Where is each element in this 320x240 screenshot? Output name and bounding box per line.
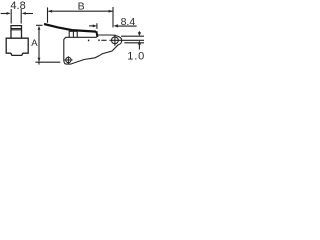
hinge lever: [44, 24, 96, 32]
switch body (side view) outline: [64, 37, 119, 64]
dimension 4.8 left extension line: [10, 9, 12, 24]
dimension A up arrow: [38, 26, 41, 30]
dimension 4.8 left tail: [1, 13, 7, 15]
hole cross horizontal: [64, 59, 72, 61]
dimension A top tick: [36, 24, 43, 26]
svg-text:1.0: 1.0: [127, 51, 144, 63]
datum line (mounting plane): [35, 61, 60, 63]
dimension 4.8 right extension line: [20, 9, 22, 24]
dimension A overshoot: [38, 62, 40, 65]
dimension 1.0 up arrow: [138, 41, 141, 45]
svg-text:B: B: [78, 0, 85, 12]
lever tip bend: [96, 31, 97, 37]
terminal lower line: [124, 42, 144, 44]
hole cross vertical: [67, 56, 69, 64]
svg-text:A: A: [31, 38, 38, 49]
body top edge: [66, 36, 97, 38]
dimension B right extension line: [112, 7, 114, 27]
dimension 8.4 left arrow: [93, 24, 97, 27]
dimension 4.8 left arrow: [7, 12, 11, 15]
dimension B line: [49, 10, 113, 12]
centerline dot 2: [98, 39, 99, 41]
dimension 8.4 left tail: [89, 25, 93, 27]
dimension A down arrow: [38, 58, 41, 62]
dimension 8.4 left extension line: [96, 23, 98, 29]
hole cross vertical: [114, 35, 116, 46]
dimension B right arrow: [109, 10, 113, 13]
dimension 4.8 right tail: [25, 13, 33, 15]
dimension 1.0 down arrow: [138, 32, 141, 36]
centerline dot 1: [88, 39, 89, 41]
svg-text:4.8: 4.8: [10, 0, 25, 12]
dimension B left extension line: [47, 7, 49, 22]
plunger inner line: [11, 29, 22, 30]
dimension A line: [38, 28, 40, 62]
hole centerline through to edge: [110, 39, 145, 41]
plunger bump divider: [72, 31, 74, 37]
dimension 8.4 right tail: [117, 25, 137, 27]
dimension 8.4 right arrow: [113, 24, 118, 27]
centerline dash: [101, 39, 106, 41]
plunger (left view): [11, 26, 22, 38]
dimension B left arrow: [48, 10, 52, 13]
mounting hole (bottom-left): [66, 57, 71, 62]
terminal top line: [121, 35, 144, 37]
mounting hole (top-right): [112, 37, 119, 44]
body right lobe top: [98, 35, 122, 45]
dimension 1.0 up arrow tail: [138, 44, 140, 50]
switch body (left view): [6, 38, 28, 55]
dimension 1.0 down arrow tail: [138, 31, 140, 33]
dimension 4.8 right arrow: [22, 12, 26, 15]
plunger bump (side view): [69, 31, 77, 37]
